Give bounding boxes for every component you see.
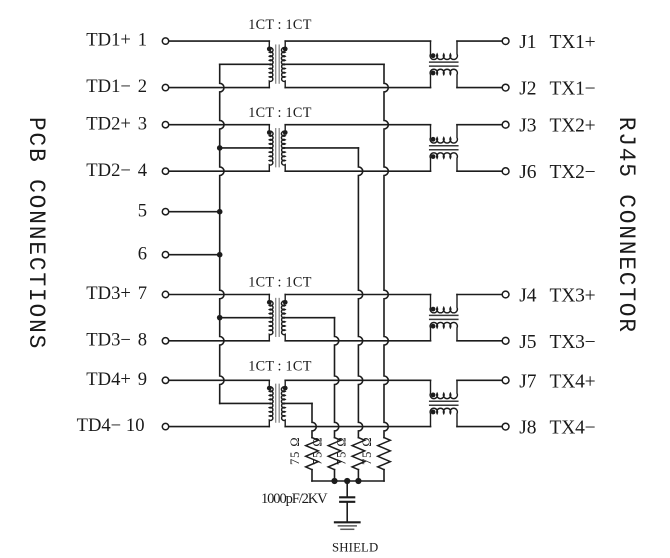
- svg-text:RJ45 CONNECTOR: RJ45 CONNECTOR: [613, 117, 639, 334]
- svg-text:TX2+: TX2+: [550, 116, 596, 137]
- common-mode choke L2 top winding: [430, 125, 457, 143]
- wire from pin 7: [169, 294, 269, 296]
- common-mode choke L1 top winding: [430, 41, 457, 59]
- svg-text:TX4+: TX4+: [550, 371, 596, 392]
- resistor R3 75 ohm: [352, 438, 365, 470]
- svg-text:6: 6: [138, 243, 147, 264]
- T3 secondary centre-tap wire: [285, 317, 334, 319]
- svg-text:75 Ω: 75 Ω: [360, 436, 374, 465]
- common-mode choke L4 top winding: [430, 380, 457, 398]
- svg-text:TD2+: TD2+: [86, 113, 131, 134]
- transformer T2 primary winding: [269, 125, 273, 172]
- choke L2 top winding phase dot: [431, 137, 436, 142]
- svg-text:J5: J5: [519, 332, 536, 353]
- T4 primary centre-tap wire: [220, 402, 270, 404]
- T3 secondary CT drop wire to resistor: [335, 318, 339, 438]
- svg-text:J7: J7: [519, 371, 537, 392]
- transformer T3 secondary phase dot: [283, 300, 288, 305]
- choke L2 bottom winding phase dot: [431, 154, 436, 159]
- wire transformer to choke row 2: [285, 87, 430, 89]
- pin 2 terminal circle: [162, 84, 168, 90]
- svg-text:8: 8: [138, 329, 147, 350]
- T3 primary centre-tap wire: [220, 317, 270, 319]
- svg-text:TD3−: TD3−: [86, 329, 131, 350]
- common-mode choke L4 core: [430, 401, 458, 405]
- rail junction dot left: [331, 478, 337, 484]
- transformer T2 secondary winding: [282, 125, 286, 172]
- rail junction dot centre: [344, 478, 350, 484]
- resistor R2 bottom stub: [334, 470, 336, 481]
- bus junction dot at T2 centre tap: [217, 145, 223, 151]
- T1 primary centre-tap wire: [220, 63, 270, 65]
- choke L1 bottom winding phase dot: [431, 71, 436, 76]
- T4 secondary CT drop wire to resistor: [312, 403, 316, 437]
- T2 primary centre-tap wire: [220, 147, 270, 149]
- common-mode choke L3 top winding: [430, 295, 457, 313]
- centre-tap bus (primary CT net): [220, 64, 224, 403]
- wire transformer to choke row 8: [285, 340, 430, 342]
- T1 secondary CT drop wire to resistor: [384, 64, 388, 437]
- resistor R1 75 ohm: [306, 438, 319, 470]
- transformer T3 primary phase dot: [267, 300, 272, 305]
- common-mode choke L1 bottom winding: [430, 69, 457, 87]
- transformer T4 secondary phase dot: [283, 386, 288, 391]
- transformer T2 secondary phase dot: [283, 130, 288, 135]
- svg-text:J2: J2: [519, 79, 536, 100]
- svg-text:5: 5: [138, 200, 147, 221]
- wire choke to J6: [457, 170, 502, 172]
- pin 10 terminal circle: [162, 423, 168, 429]
- svg-text:TX1+: TX1+: [550, 32, 596, 53]
- resistor R3 bottom stub: [357, 470, 359, 481]
- wire from pin 8: [169, 340, 269, 342]
- wire from pin 5: [169, 211, 220, 213]
- T4 secondary centre-tap wire: [285, 402, 312, 404]
- wire choke to J7: [457, 379, 502, 381]
- wire transformer to choke row 3: [285, 124, 430, 126]
- pin J1 terminal circle: [502, 38, 509, 45]
- pin 6 terminal circle: [162, 252, 168, 258]
- svg-text:TX4−: TX4−: [550, 418, 596, 439]
- svg-text:J4: J4: [519, 286, 537, 307]
- transformer T2 core: [276, 129, 280, 167]
- resistor R4 75 ohm: [378, 438, 391, 470]
- pin 3 terminal circle: [162, 122, 168, 128]
- wire choke to J4: [457, 294, 502, 296]
- transformer T3 primary winding: [269, 295, 273, 341]
- transformer T4 secondary winding: [282, 380, 286, 426]
- common-mode choke L3 core: [430, 315, 458, 319]
- svg-text:7: 7: [138, 283, 147, 304]
- wire choke to J8: [457, 426, 502, 428]
- resistor R2 75 ohm: [328, 438, 341, 470]
- pin J6 terminal circle: [502, 168, 509, 175]
- svg-text:10: 10: [126, 415, 145, 436]
- pin 4 terminal circle: [162, 168, 168, 174]
- svg-text:1CT : 1CT: 1CT : 1CT: [248, 105, 312, 121]
- svg-text:TX2−: TX2−: [550, 162, 596, 183]
- svg-text:75 Ω: 75 Ω: [288, 436, 302, 465]
- svg-text:4: 4: [138, 160, 147, 181]
- svg-text:TX3+: TX3+: [550, 286, 596, 307]
- common-mode choke L4 bottom winding: [430, 408, 457, 426]
- pin J5 terminal circle: [502, 337, 509, 344]
- wire transformer to choke row 1: [285, 40, 430, 42]
- svg-text:1CT : 1CT: 1CT : 1CT: [248, 274, 312, 290]
- svg-text:J8: J8: [519, 418, 536, 439]
- svg-text:J1: J1: [519, 32, 536, 53]
- transformer T3 core: [276, 299, 280, 337]
- wire transformer to choke row 4: [285, 170, 430, 172]
- pin J3 terminal circle: [502, 121, 509, 128]
- svg-text:J6: J6: [519, 162, 537, 183]
- transformer T1 primary phase dot: [267, 47, 272, 52]
- svg-text:75 Ω: 75 Ω: [311, 436, 325, 465]
- svg-text:3: 3: [138, 113, 147, 134]
- resistor R4 bottom stub: [383, 470, 385, 481]
- svg-text:1000pF/2KV: 1000pF/2KV: [261, 491, 328, 507]
- wire from pin 3: [169, 124, 269, 126]
- common-mode choke L3 bottom winding: [430, 322, 457, 340]
- transformer T4 primary winding: [269, 380, 273, 426]
- common-mode choke L1 core: [430, 62, 458, 66]
- transformer T1 core: [276, 45, 280, 83]
- pin J7 terminal circle: [502, 377, 509, 384]
- transformer T1 secondary phase dot: [283, 47, 288, 52]
- wire from pin 6: [169, 254, 220, 256]
- wire choke to J3: [457, 124, 502, 126]
- bus junction dot at pin 5: [217, 209, 223, 215]
- common-mode choke L2 core: [430, 146, 458, 150]
- transformer T3 secondary winding: [282, 295, 286, 341]
- transformer T1 primary winding: [269, 41, 273, 88]
- common-mode choke L2 bottom winding: [430, 153, 457, 171]
- transformer T4 primary phase dot: [267, 386, 272, 391]
- wire transformer to choke row 9: [285, 379, 430, 381]
- pin 9 terminal circle: [162, 377, 168, 383]
- svg-text:1CT : 1CT: 1CT : 1CT: [248, 17, 312, 33]
- pin 8 terminal circle: [162, 338, 168, 344]
- pin J4 terminal circle: [502, 291, 509, 298]
- transformer T1 secondary winding: [282, 41, 286, 88]
- wire choke to J1: [457, 40, 502, 42]
- wire transformer to choke row 10: [285, 426, 430, 428]
- svg-text:TD3+: TD3+: [86, 283, 131, 304]
- transformer T4 core: [276, 384, 280, 422]
- bus junction dot at T3 centre tap: [217, 315, 223, 321]
- wire from pin 10: [169, 426, 269, 428]
- pin J2 terminal circle: [502, 84, 509, 91]
- svg-text:2: 2: [138, 76, 147, 97]
- svg-text:J3: J3: [519, 116, 536, 137]
- svg-text:TD1+: TD1+: [86, 30, 131, 51]
- choke L3 bottom winding phase dot: [431, 324, 436, 329]
- wire transformer to choke row 7: [285, 294, 430, 296]
- svg-text:PCB CONNECTIONS: PCB CONNECTIONS: [23, 117, 49, 350]
- svg-text:TD4+: TD4+: [86, 369, 131, 390]
- rail junction dot right: [355, 478, 361, 484]
- wire from pin 1: [169, 40, 269, 42]
- choke L1 top winding phase dot: [431, 53, 436, 58]
- svg-text:TX1−: TX1−: [550, 79, 596, 100]
- wire rail to capacitor: [346, 481, 348, 496]
- T2 secondary CT drop wire to resistor: [358, 148, 362, 438]
- pin 5 terminal circle: [162, 209, 168, 215]
- shield earth ground symbol: [335, 522, 360, 529]
- svg-text:75 Ω: 75 Ω: [335, 436, 349, 465]
- choke L4 bottom winding phase dot: [431, 410, 436, 415]
- svg-text:9: 9: [138, 369, 147, 390]
- pin J8 terminal circle: [502, 423, 509, 430]
- svg-text:TD1−: TD1−: [86, 76, 131, 97]
- wire choke to J5: [457, 340, 502, 342]
- transformer T2 primary phase dot: [267, 130, 272, 135]
- svg-text:SHIELD: SHIELD: [332, 540, 378, 553]
- pin 7 terminal circle: [162, 291, 168, 297]
- svg-text:1CT : 1CT: 1CT : 1CT: [248, 359, 312, 375]
- wire from pin 4: [169, 170, 269, 172]
- svg-text:TD2−: TD2−: [86, 160, 131, 181]
- ground rail wire: [312, 480, 384, 482]
- capacitor C1 1000pF/2KV plates: [340, 497, 354, 502]
- svg-text:TX3−: TX3−: [550, 332, 596, 353]
- T1 secondary centre-tap wire: [285, 63, 384, 65]
- svg-text:TD4−: TD4−: [77, 415, 122, 436]
- wire choke to J2: [457, 87, 502, 89]
- pin 1 terminal circle: [162, 38, 168, 44]
- bus junction dot at pin 6: [217, 252, 223, 258]
- resistor R1 bottom stub: [311, 470, 313, 481]
- wire capacitor to shield ground: [346, 503, 348, 522]
- choke L3 top winding phase dot: [431, 307, 436, 312]
- choke L4 top winding phase dot: [431, 393, 436, 398]
- svg-text:1: 1: [138, 30, 147, 51]
- T2 secondary centre-tap wire: [285, 147, 358, 149]
- wire from pin 9: [169, 379, 269, 381]
- wire from pin 2: [169, 87, 269, 89]
